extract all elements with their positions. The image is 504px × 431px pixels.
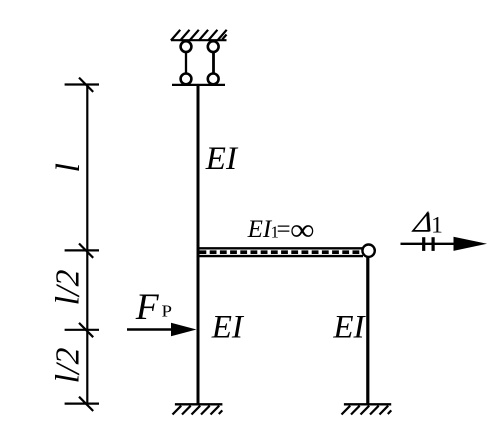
svg-text:l/2: l/2 bbox=[50, 269, 87, 305]
svg-text:EI: EI bbox=[247, 216, 273, 243]
svg-text:1: 1 bbox=[431, 213, 443, 239]
svg-text:l/2: l/2 bbox=[50, 347, 87, 383]
svg-text:P: P bbox=[162, 301, 173, 320]
svg-text:=: = bbox=[277, 216, 291, 243]
svg-text:EI: EI bbox=[211, 310, 245, 346]
svg-text:F: F bbox=[135, 287, 160, 328]
svg-text:l: l bbox=[50, 163, 87, 172]
svg-text:∞: ∞ bbox=[290, 212, 315, 247]
svg-text:EI: EI bbox=[205, 141, 239, 177]
svg-text:EI: EI bbox=[332, 309, 366, 345]
